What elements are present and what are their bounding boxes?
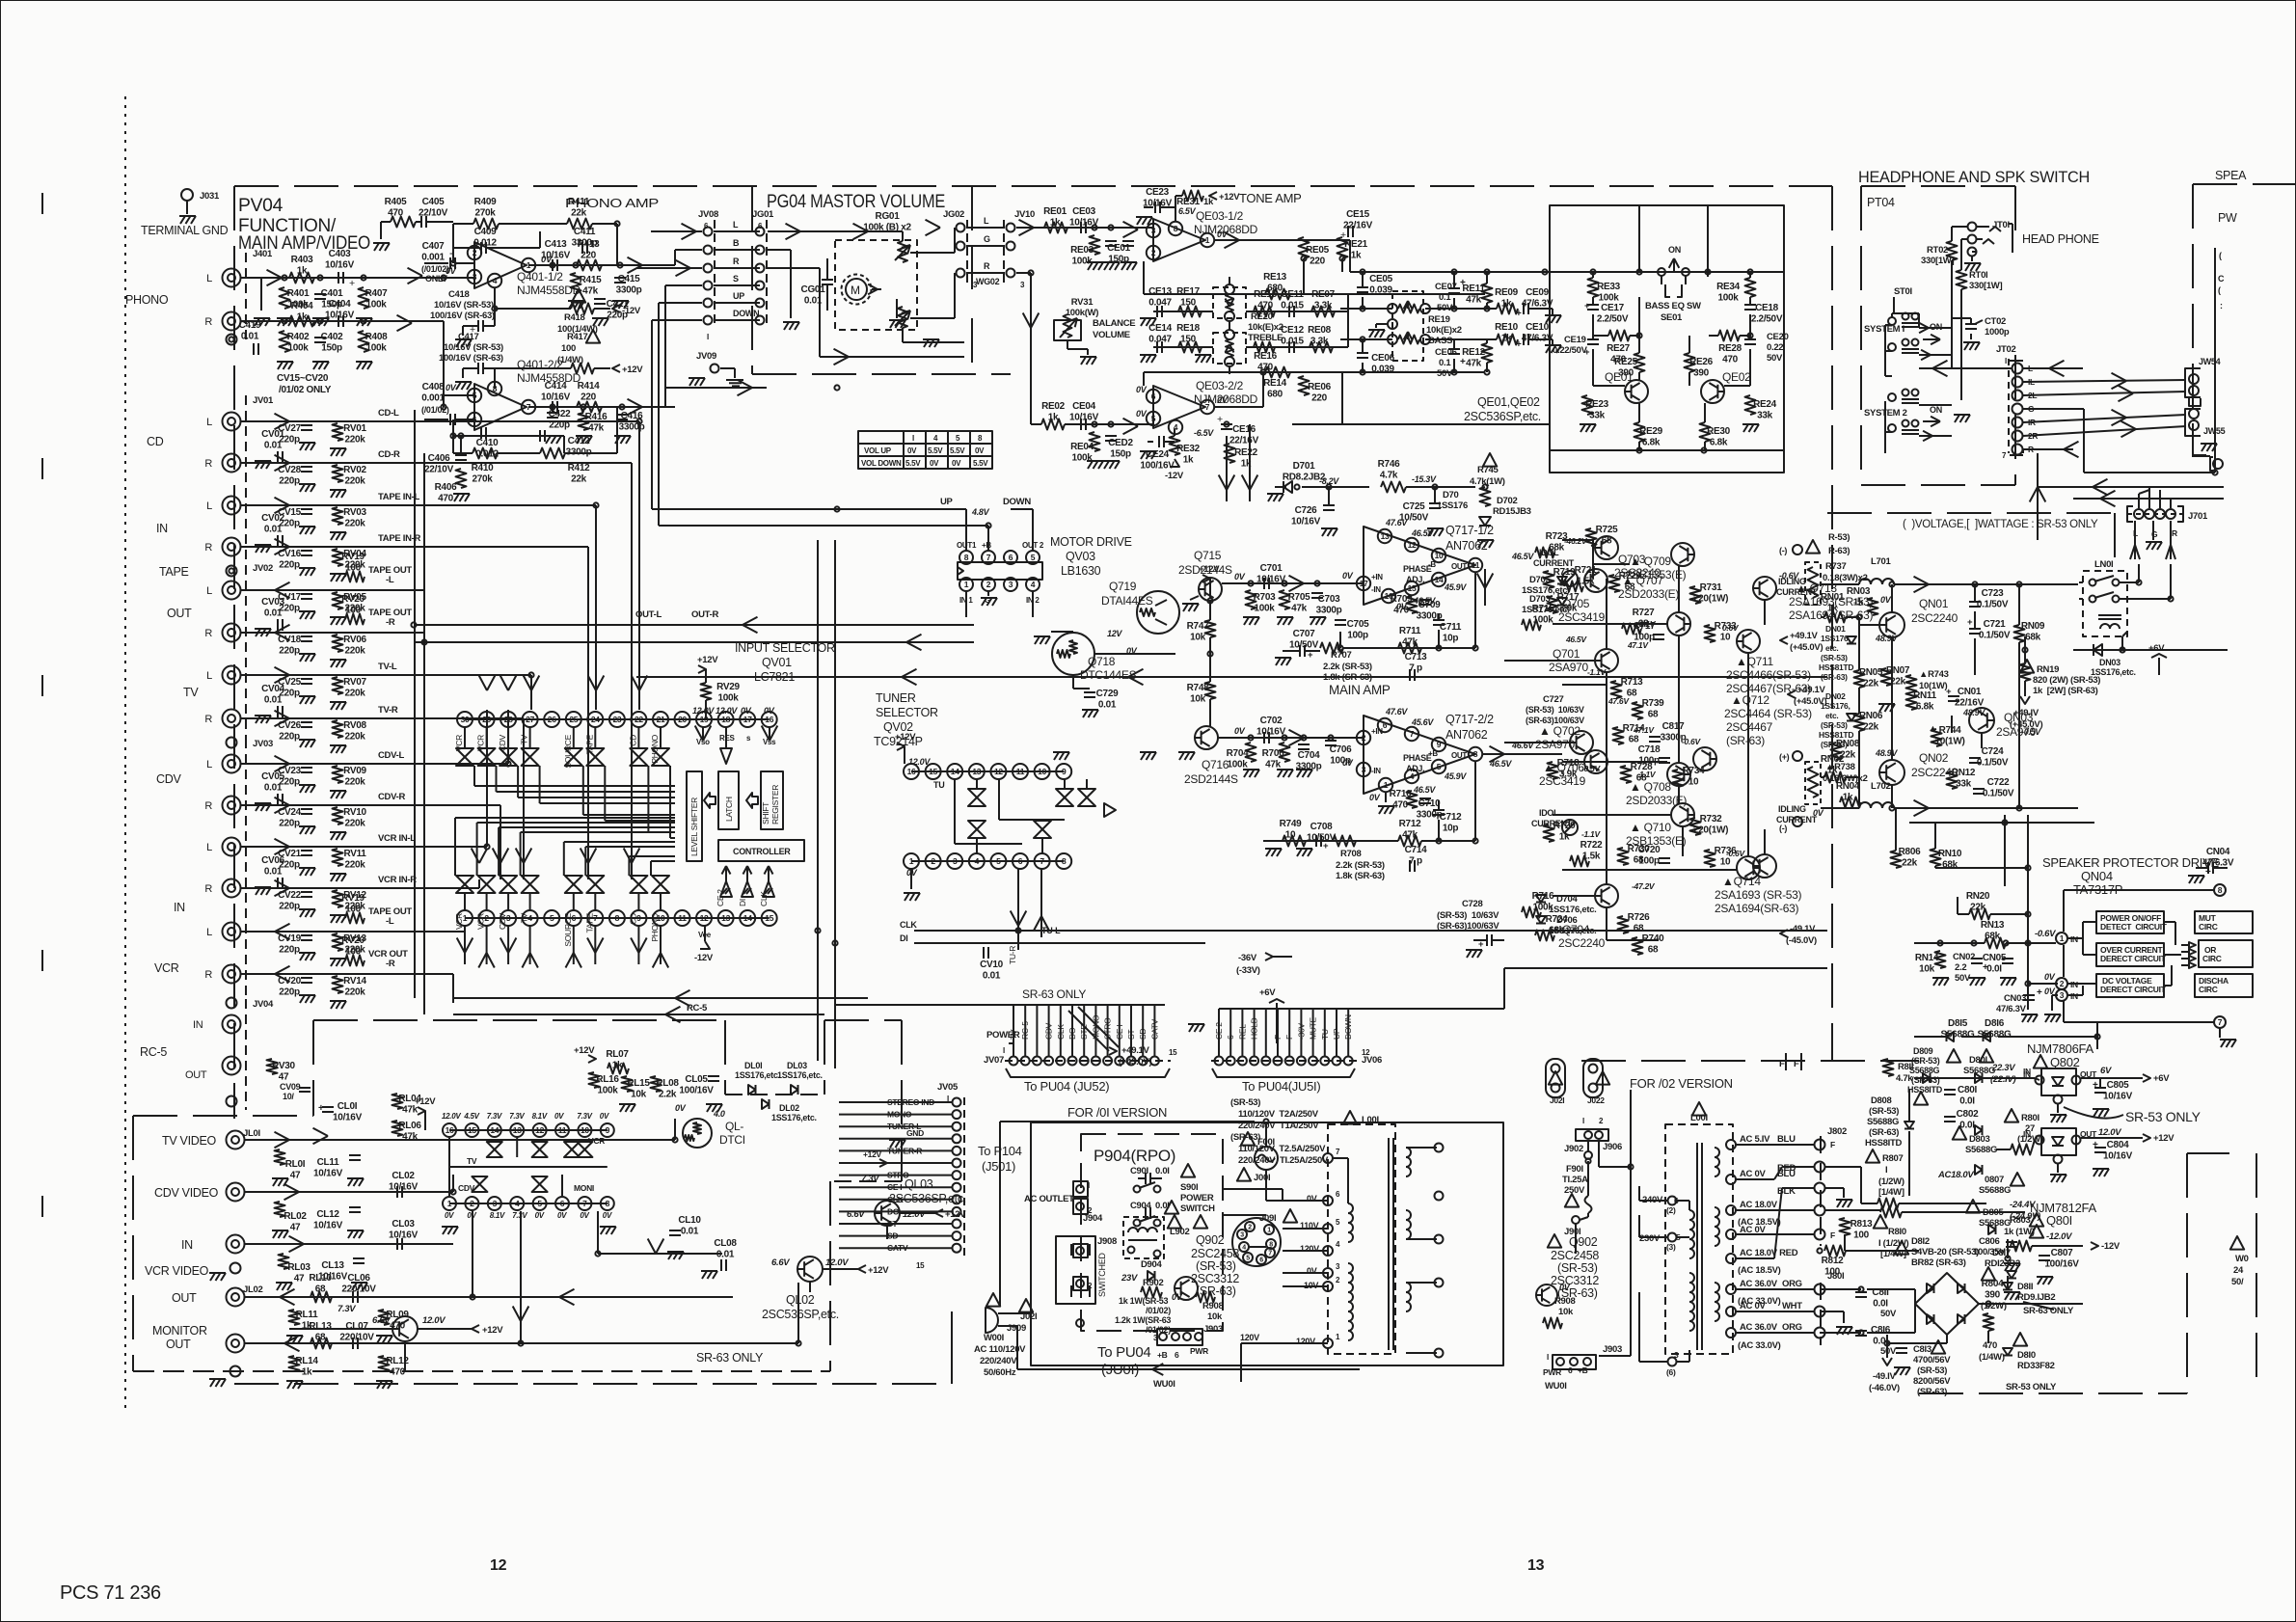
svg-text:R406: R406 — [435, 482, 457, 493]
J902 J906 connector — [1576, 1129, 1608, 1141]
box link wires — [2067, 937, 2083, 939]
svg-text:0V: 0V — [580, 1211, 589, 1220]
svg-text:(-): (-) — [1779, 824, 1787, 833]
svg-text:PHONO: PHONO — [125, 293, 169, 307]
svg-text:OUT-R: OUT-R — [691, 609, 718, 620]
svg-text:CL11: CL11 — [317, 1157, 339, 1168]
op-amp Q717-1/2 AN7062 — [1364, 527, 1475, 605]
Q902 label block — [1194, 1215, 1207, 1229]
svg-text:TAPE: TAPE — [584, 912, 594, 933]
svg-text:C720: C720 — [1638, 845, 1661, 855]
svg-text:23V: 23V — [1121, 1273, 1138, 1284]
svg-text:+49.IV: +49.IV — [2013, 708, 2039, 718]
svg-text:IDLING: IDLING — [1778, 577, 1806, 586]
svg-text:0V: 0V — [445, 1211, 454, 1220]
svg-text:330[1W]: 330[1W] — [1969, 281, 2002, 291]
svg-text:30: 30 — [461, 715, 470, 724]
svg-text:10/16V: 10/16V — [389, 1182, 419, 1193]
svg-text:F90I: F90I — [1566, 1164, 1583, 1175]
feeder bus into JV07 — [835, 1004, 1165, 1006]
QV02 inverter — [1104, 803, 1116, 817]
svg-text:0.01: 0.01 — [1098, 700, 1117, 711]
tone network row treble — [1153, 311, 1213, 312]
svg-text:▲Q714: ▲Q714 — [1722, 875, 1761, 888]
svg-text:R807: R807 — [1882, 1153, 1904, 1164]
arrow between PG04 and JG02 — [926, 220, 941, 236]
svg-text:220k: 220k — [344, 476, 365, 487]
svg-text:R417: R417 — [567, 332, 588, 342]
svg-text:J401: J401 — [253, 249, 273, 259]
svg-text:2SA1694(SR-63): 2SA1694(SR-63) — [1715, 902, 1798, 915]
svg-text:1SS176,etc.: 1SS176,etc. — [1549, 905, 1597, 915]
-12V flag — [2091, 1242, 2098, 1250]
svg-text:RE18: RE18 — [1176, 323, 1201, 334]
svg-text:4: 4 — [975, 856, 980, 866]
svg-text:1SS176: 1SS176 — [1437, 500, 1468, 511]
svg-text:TV: TV — [520, 912, 529, 923]
svg-text:AN7062: AN7062 — [1445, 539, 1488, 553]
svg-text:J802: J802 — [1827, 1126, 1847, 1137]
capacitor C704 — [1298, 744, 1310, 749]
svg-text:R401: R401 — [287, 288, 310, 299]
svg-text:R806: R806 — [1899, 847, 1921, 857]
svg-text:R: R — [204, 628, 212, 639]
svg-text:Q902: Q902 — [1196, 1233, 1225, 1247]
treble row right — [1246, 311, 1348, 312]
svg-text:WHT: WHT — [1782, 1301, 1802, 1311]
svg-text:7: 7 — [2218, 1017, 2223, 1027]
input line TAPE OUT with CV18 RV06 — [241, 632, 424, 634]
svg-text:D705: D705 — [1529, 575, 1552, 585]
+49.1V flag upper — [1780, 636, 1788, 644]
JV06 body outline — [1212, 1068, 1355, 1077]
resistor RE01 — [1044, 223, 1067, 233]
CONTROLLER box — [718, 840, 804, 861]
svg-text:(SR-63): (SR-63) — [1869, 1127, 1899, 1138]
svg-text:OUT: OUT — [1451, 751, 1467, 760]
svg-text:C705: C705 — [1347, 619, 1369, 630]
svg-text:0.039: 0.039 — [1371, 365, 1394, 375]
svg-text:10: 10 — [581, 1125, 589, 1135]
svg-text:14: 14 — [951, 767, 959, 776]
svg-text:0.01: 0.01 — [264, 695, 283, 706]
svg-text:RT0I: RT0I — [1969, 270, 1987, 281]
svg-text:0.0I: 0.0I — [1959, 1096, 1975, 1107]
svg-text:10/16V: 10/16V — [313, 1169, 343, 1179]
svg-text:J02I: J02I — [1550, 1095, 1564, 1105]
speaker wires JT02 to JW54 — [2023, 380, 2186, 382]
svg-text:10k(E)x2: 10k(E)x2 — [1426, 325, 1462, 336]
svg-text:22: 22 — [635, 715, 643, 724]
svg-text:OUT: OUT — [1451, 562, 1467, 571]
svg-text:(+45.0V): (+45.0V) — [1794, 696, 1826, 707]
svg-text:VCR IN-R: VCR IN-R — [378, 875, 417, 885]
svg-text:R412: R412 — [568, 463, 590, 473]
svg-text:CE13: CE13 — [1148, 286, 1173, 297]
LEVEL SHIFTER box — [687, 771, 702, 861]
svg-text:CE19: CE19 — [1564, 335, 1586, 345]
svg-text:(SR-53): (SR-53) — [1821, 720, 1848, 730]
svg-text:47k: 47k — [582, 286, 599, 297]
svg-text:R405: R405 — [385, 197, 407, 207]
svg-text:-IN: -IN — [1371, 585, 1381, 594]
svg-text:2SC3312: 2SC3312 — [1191, 1272, 1239, 1285]
svg-text:8.1V: 8.1V — [532, 1112, 548, 1121]
wire R channel drop — [1030, 273, 1032, 424]
svg-text:4: 4 — [1242, 1245, 1246, 1252]
svg-text:68: 68 — [1634, 924, 1644, 934]
L001 transformer /01 dashed box — [1343, 1111, 1357, 1124]
svg-text:100p: 100p — [1638, 856, 1660, 867]
svg-text:26: 26 — [548, 715, 556, 724]
svg-text:47k: 47k — [1291, 604, 1308, 614]
diodes on +6V feed wire — [1914, 1077, 2035, 1079]
svg-text:RV19: RV19 — [341, 893, 365, 904]
svg-text:MONITOR: MONITOR — [152, 1324, 207, 1338]
svg-text:(SR-53): (SR-53) — [1557, 1261, 1598, 1275]
svg-text:Q719: Q719 — [1109, 580, 1137, 593]
svg-text:GND: GND — [906, 1128, 924, 1138]
svg-text:100k: 100k — [365, 343, 387, 354]
svg-text:RE20: RE20 — [1251, 311, 1273, 322]
svg-text:RN11: RN11 — [1913, 690, 1937, 701]
svg-text:CD: CD — [628, 735, 637, 746]
JV07 body outline — [1006, 1068, 1170, 1077]
svg-text:+12V: +12V — [697, 655, 718, 665]
svg-text:POWER: POWER — [986, 1030, 1020, 1041]
svg-text:RT02: RT02 — [1927, 245, 1948, 256]
svg-text:7 p: 7 p — [1409, 856, 1422, 867]
svg-text:TREBLE: TREBLE — [1248, 333, 1283, 343]
svg-text:RD33F82: RD33F82 — [2017, 1361, 2055, 1371]
svg-text:12: 12 — [994, 767, 1003, 776]
svg-text:5: 5 — [1437, 762, 1442, 771]
svg-text:RE19: RE19 — [1428, 314, 1450, 325]
svg-text:CV24: CV24 — [278, 807, 302, 818]
svg-text:I: I — [2005, 357, 2007, 365]
svg-text:AC OUTLET: AC OUTLET — [1024, 1194, 1074, 1204]
input line TV-L with CV25 RV07 — [241, 674, 424, 676]
svg-text:1SS176,etc.: 1SS176,etc. — [1549, 926, 1597, 936]
svg-text:0V: 0V — [1136, 385, 1148, 394]
svg-text:68k: 68k — [2025, 633, 2041, 643]
svg-text:CV06: CV06 — [261, 855, 285, 866]
svg-text:RV01: RV01 — [343, 423, 366, 434]
svg-text:CL10: CL10 — [678, 1215, 701, 1226]
svg-text:10p: 10p — [1443, 824, 1459, 834]
svg-text:3300p: 3300p — [1316, 606, 1342, 616]
svg-text:390: 390 — [1693, 368, 1710, 379]
svg-text:DETECT CIRCUIT: DETECT CIRCUIT — [2100, 922, 2168, 932]
svg-text:100: 100 — [345, 563, 362, 574]
svg-text:To PU04: To PU04 — [1097, 1344, 1150, 1361]
svg-text:6: 6 — [1383, 720, 1388, 730]
QV03 pins top 8-5 — [959, 551, 973, 564]
svg-text:0807: 0807 — [1985, 1175, 2004, 1185]
svg-text:0V: 0V — [675, 1103, 687, 1113]
svg-text:SWITCHED: SWITCHED — [1097, 1253, 1107, 1297]
svg-text:0V: 0V — [554, 1112, 564, 1121]
svg-text:RV02: RV02 — [343, 465, 366, 475]
svg-text:2SD2144S: 2SD2144S — [1184, 772, 1238, 786]
svg-text:OUT: OUT — [172, 1291, 197, 1305]
svg-text:4.0: 4.0 — [713, 1109, 725, 1119]
svg-text:JV08: JV08 — [698, 209, 718, 220]
svg-text:C704: C704 — [1298, 750, 1320, 761]
svg-text:Q401-1/2: Q401-1/2 — [517, 270, 563, 284]
svg-text:AC 36.0V: AC 36.0V — [1740, 1279, 1778, 1289]
resistor R703 — [1246, 590, 1256, 609]
wire JV10 L to tone amp — [1016, 227, 1153, 229]
svg-text:TUNER: TUNER — [876, 691, 916, 705]
svg-text:10/16V: 10/16V — [1256, 727, 1286, 738]
svg-text:0.1: 0.1 — [1439, 358, 1451, 368]
svg-text:RN20: RN20 — [1966, 891, 1990, 902]
svg-text:CV26: CV26 — [278, 720, 302, 731]
svg-text:47: 47 — [294, 1274, 305, 1284]
svg-text:120V: 120V — [1300, 1244, 1319, 1254]
svg-text:I: I — [912, 434, 914, 443]
svg-text:10/16V: 10/16V — [333, 1113, 363, 1123]
svg-text:J906: J906 — [1603, 1142, 1622, 1152]
svg-text:5.5V: 5.5V — [950, 446, 965, 455]
svg-text:22/10V: 22/10V — [419, 208, 448, 219]
svg-text:220k: 220k — [344, 732, 365, 743]
SHIFT REGISTER box — [761, 771, 783, 829]
svg-text:RV06: RV06 — [343, 635, 366, 645]
relay wires to J701 — [2120, 581, 2139, 583]
D801 labels — [1947, 1049, 1960, 1063]
svg-text:17: 17 — [743, 715, 752, 724]
svg-text:0.0I: 0.0I — [1873, 1299, 1888, 1310]
svg-text:PV04: PV04 — [238, 196, 284, 216]
svg-text:5: 5 — [537, 1199, 542, 1208]
svg-text:R407: R407 — [365, 288, 388, 299]
svg-text:47k: 47k — [588, 423, 605, 434]
svg-text:R734: R734 — [1683, 766, 1705, 776]
P904 RPO dashed box — [1081, 1134, 1223, 1331]
svg-text:CDV: CDV — [458, 1183, 475, 1193]
svg-text:(+): (+) — [1779, 752, 1790, 762]
svg-text:2: 2 — [473, 248, 477, 257]
headphone PT04 box — [1861, 185, 2015, 187]
svg-text:1k: 1k — [297, 266, 308, 277]
svg-text:270k: 270k — [474, 208, 496, 219]
svg-text:RN03: RN03 — [1847, 586, 1871, 597]
svg-text:3: 3 — [1336, 1262, 1340, 1271]
svg-text:29: 29 — [482, 715, 491, 724]
resistor R407 — [359, 287, 369, 309]
svg-text:12V: 12V — [1107, 629, 1122, 638]
svg-text:QV03: QV03 — [1066, 550, 1095, 563]
MUT and OR and DISCHA boxes — [2195, 911, 2253, 933]
ground under JW55 — [2201, 444, 2217, 451]
svg-text:1: 1 — [1267, 1228, 1271, 1234]
svg-text:1k: 1k — [297, 312, 308, 323]
svg-text:JG01: JG01 — [752, 209, 774, 220]
svg-text:F: F — [1830, 1140, 1835, 1149]
svg-text:68: 68 — [1629, 735, 1639, 745]
svg-text:2: 2 — [2060, 979, 2065, 988]
svg-text:RV14: RV14 — [343, 976, 366, 987]
svg-text:3: 3 — [2060, 990, 2065, 1000]
svg-text:VCR: VCR — [154, 961, 179, 975]
svg-text:QN02: QN02 — [1919, 751, 1949, 765]
svg-text:0.01: 0.01 — [264, 608, 283, 619]
svg-text:To PU04(JU5I): To PU04(JU5I) — [1242, 1079, 1320, 1094]
svg-text:VCR IN-L: VCR IN-L — [378, 833, 416, 844]
svg-text:(SR-53): (SR-53) — [1230, 1097, 1260, 1108]
svg-text:C723: C723 — [1982, 588, 2004, 599]
svg-text:2: 2 — [1599, 1117, 1604, 1125]
svg-text:Q701: Q701 — [1553, 647, 1580, 661]
svg-text:47/6.3V: 47/6.3V — [1996, 1004, 2027, 1014]
svg-text:C413: C413 — [545, 239, 567, 250]
resistor R415 — [571, 273, 581, 292]
svg-text:7: 7 — [582, 1199, 587, 1208]
svg-text:2SA970: 2SA970 — [1549, 661, 1589, 674]
svg-text:R902: R902 — [1143, 1278, 1164, 1288]
wiper junction wires — [910, 252, 955, 254]
svg-text:RE15: RE15 — [1254, 289, 1278, 300]
svg-text:12.0V: 12.0V — [716, 706, 738, 716]
QV02 bottom pin row 1-8 — [911, 860, 1064, 862]
svg-text:C407: C407 — [422, 241, 445, 252]
input line CD-L with CV27 RV01 — [241, 420, 424, 422]
svg-text:(-46.0V): (-46.0V) — [1869, 1383, 1900, 1393]
svg-text:+B: +B — [982, 541, 991, 550]
svg-text:R402: R402 — [287, 332, 310, 342]
svg-text:1.2k 1W(SR-63: 1.2k 1W(SR-63 — [1115, 1315, 1171, 1325]
svg-text:220k: 220k — [344, 646, 365, 657]
transistor Q902 symbol — [1175, 1277, 1198, 1300]
svg-text:15: 15 — [1408, 583, 1417, 593]
svg-text:IN: IN — [193, 1019, 203, 1031]
bus wire out-r — [415, 641, 974, 643]
svg-text:TAPE: TAPE — [159, 565, 189, 579]
svg-text:(22.IV): (22.IV) — [1990, 1074, 2016, 1085]
svg-text:14: 14 — [490, 1125, 499, 1135]
svg-text:10: 10 — [1435, 551, 1444, 560]
svg-text:CE03: CE03 — [1072, 206, 1096, 217]
QL01 internal wires — [448, 1138, 450, 1196]
op-amp QE03-1/2 — [1153, 219, 1205, 261]
svg-text:J022: J022 — [1587, 1095, 1605, 1105]
svg-text:47: 47 — [290, 1223, 301, 1233]
svg-text:D8II: D8II — [2017, 1282, 2033, 1292]
+6V flag — [2143, 1074, 2150, 1082]
svg-text:1SS176,etc.: 1SS176,etc. — [1522, 605, 1570, 615]
svg-text:WU0I: WU0I — [1545, 1381, 1567, 1392]
svg-text:CD: CD — [628, 913, 637, 925]
svg-text:4700/56V: 4700/56V — [1913, 1355, 1951, 1365]
svg-text:100/16V: 100/16V — [679, 1086, 714, 1096]
svg-text:220: 220 — [1311, 393, 1328, 404]
svg-text:(1/4W): (1/4W) — [1979, 1352, 2005, 1363]
army wires verticals — [1592, 540, 1594, 579]
svg-text:DERECT CIRCUIT: DERECT CIRCUIT — [2100, 985, 2167, 994]
svg-text:3: 3 — [1009, 580, 1013, 589]
svg-text:SWITCH: SWITCH — [1180, 1203, 1215, 1214]
svg-text:46.5V: 46.5V — [1511, 552, 1534, 561]
svg-text:(AC 33.0V): (AC 33.0V) — [1738, 1340, 1781, 1351]
transformer taps left — [1323, 1153, 1333, 1163]
svg-text:OUT: OUT — [167, 607, 192, 620]
svg-text:100: 100 — [345, 905, 362, 915]
svg-text:RN19: RN19 — [2037, 664, 2059, 675]
svg-text:S: S — [733, 274, 739, 284]
svg-text:TU-R: TU-R — [1008, 946, 1017, 964]
svg-text:6: 6 — [560, 1199, 565, 1208]
svg-text:9: 9 — [1437, 740, 1442, 749]
svg-text:-12V: -12V — [694, 953, 714, 963]
bridge output wires — [1946, 1335, 1948, 1343]
svg-text:CURRENT: CURRENT — [1776, 815, 1818, 825]
-49.1V flag lower — [1780, 930, 1788, 937]
svg-text:D8I6: D8I6 — [1985, 1018, 2005, 1029]
svg-text:-12V: -12V — [2101, 1241, 2120, 1252]
svg-text:4: 4 — [1336, 1240, 1340, 1249]
svg-text:4: 4 — [493, 276, 498, 285]
primary coil /02 — [1689, 1210, 1694, 1258]
svg-text:2SC4464 (SR-53): 2SC4464 (SR-53) — [1724, 707, 1812, 720]
svg-text:-R: -R — [386, 617, 395, 628]
VCR in wire — [244, 1243, 453, 1245]
svg-text:Q715: Q715 — [1194, 549, 1222, 562]
svg-text:AC 5.IV: AC 5.IV — [1740, 1134, 1770, 1145]
svg-text:5.5V: 5.5V — [928, 446, 943, 455]
svg-text:L: L — [206, 500, 212, 512]
svg-text:HEADPHONE AND SPK SWITCH: HEADPHONE AND SPK SWITCH — [1858, 168, 2090, 186]
svg-text:R403: R403 — [291, 255, 313, 265]
svg-text:C804: C804 — [2107, 1140, 2129, 1150]
svg-text:QV01: QV01 — [762, 656, 792, 669]
svg-text:4.8V: 4.8V — [971, 507, 990, 517]
svg-text:RES: RES — [719, 734, 736, 743]
svg-text:8.1V: 8.1V — [490, 1211, 505, 1220]
svg-text:+12V: +12V — [1219, 192, 1240, 203]
QE02 wires — [1749, 272, 1751, 278]
J701 ground — [2152, 521, 2154, 540]
svg-text:3: 3 — [493, 1199, 498, 1208]
svg-text:(SR-53) 10/63V: (SR-53) 10/63V — [1526, 705, 1584, 715]
svg-text:2.2k (SR-53): 2.2k (SR-53) — [1323, 662, 1372, 672]
svg-text:3: 3 — [1151, 226, 1156, 235]
svg-text:5: 5 — [996, 856, 1001, 866]
svg-text:J701: J701 — [2188, 511, 2208, 522]
svg-text:C707: C707 — [1293, 629, 1315, 639]
svg-text:Q718: Q718 — [1088, 655, 1116, 668]
svg-text:AC 36.0V: AC 36.0V — [1740, 1322, 1778, 1333]
svg-text:(SR-53) 10/63V: (SR-53) 10/63V — [1437, 910, 1499, 921]
svg-text:2: 2 — [470, 1199, 474, 1208]
svg-text:0V: 0V — [600, 1112, 609, 1121]
svg-text:VCR: VCR — [476, 913, 486, 930]
svg-text:6: 6 — [758, 222, 763, 230]
svg-text:50/: 50/ — [2231, 1277, 2244, 1287]
svg-text:RV07: RV07 — [343, 677, 366, 688]
svg-text:C712: C712 — [1440, 812, 1462, 823]
svg-text:47k: 47k — [1265, 760, 1282, 770]
svg-text:SR-63 ONLY: SR-63 ONLY — [1022, 987, 1086, 1001]
svg-text:680: 680 — [1267, 390, 1283, 400]
svg-text:CD: CD — [147, 435, 164, 448]
svg-text:L: L — [733, 220, 739, 230]
svg-text:1: 1 — [447, 1199, 452, 1208]
svg-text:CL07: CL07 — [345, 1321, 368, 1332]
svg-text:ADJ.: ADJ. — [1406, 764, 1424, 773]
svg-text:JT0I: JT0I — [1992, 220, 2010, 230]
